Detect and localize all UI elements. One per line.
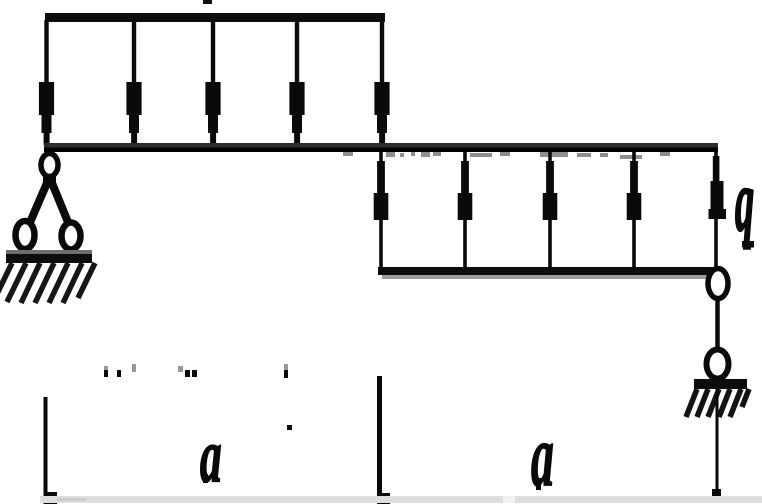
- svg-text:q: q: [735, 152, 754, 249]
- svg-text:a: a: [200, 415, 222, 499]
- svg-text:a: a: [531, 408, 554, 504]
